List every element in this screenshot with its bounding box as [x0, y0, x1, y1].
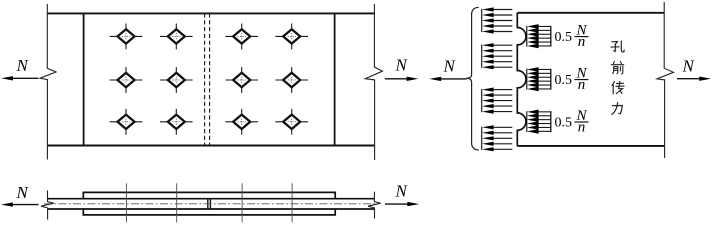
bolt B8: centerlines — [275, 67, 308, 93]
hidden butt joint dashed line 2 — [209, 13, 211, 145]
distributed load group G3: arrow 2 — [493, 94, 512, 96]
distributed load group G3: arrow 4 — [493, 105, 512, 107]
hole bearing group H3: arrow 6 — [538, 130, 551, 132]
distributed load group G1: arrow 3 — [493, 20, 512, 22]
bolt column centerline C2 — [176, 183, 178, 222]
bolt B11: centerlines — [225, 109, 258, 135]
svg-text:N: N — [16, 56, 30, 75]
distributed load group G4: arrow 2 — [493, 132, 512, 134]
detail right force arrow N — [677, 78, 702, 80]
distributed load group G4: arrow 5 — [493, 148, 512, 150]
elevation left break with zigzag — [41, 190, 54, 219]
elevation centerline (dash-dot) — [44, 203, 378, 205]
distributed load group G4: arrow 1 — [493, 126, 512, 128]
bolt B8: diamond head — [283, 73, 300, 87]
bolt B10: diamond head — [168, 115, 185, 129]
svg-text:n: n — [578, 34, 586, 50]
distributed load group G4: arrow 3 — [493, 137, 512, 139]
elevation bottom cover plate — [83, 209, 335, 215]
left break line with zigzag — [40, 4, 56, 160]
caption character LI (force) — [612, 103, 622, 115]
distributed load group G1: arrow 1 — [493, 9, 512, 11]
bolt B6: diamond head — [168, 73, 185, 87]
bolt B10: center mark — [172, 118, 180, 125]
svg-text:0.5: 0.5 — [555, 73, 573, 88]
hole bearing group H1: arrow 5 — [538, 41, 551, 43]
curly brace grouping distributed load — [466, 7, 479, 150]
bolt B8: center mark — [288, 77, 296, 84]
hole bearing group H1: arrow 1 — [538, 25, 551, 27]
distributed load group G3: arrow 3 — [493, 100, 512, 102]
bolt column centerline C1 — [125, 183, 127, 222]
svg-text:N: N — [443, 56, 457, 75]
svg-text:n: n — [578, 119, 586, 135]
bolt B1: centerlines — [110, 24, 143, 50]
bolt B12: diamond head — [283, 115, 300, 129]
svg-text:0.5: 0.5 — [555, 30, 573, 45]
elevation left force arrow N — [10, 204, 39, 206]
hole bearing group H1: arrow 4 — [538, 37, 551, 39]
butt joint gap lines — [207, 199, 209, 209]
distributed load group G1: arrow 4 — [493, 25, 512, 27]
bolt B7: diamond head — [233, 73, 250, 87]
elevation main plate top edge — [48, 198, 374, 200]
distributed load group G3: arrow 1 — [493, 89, 512, 91]
detail plate left edge with bolt hole semicircles — [517, 13, 526, 146]
bolt column centerline C3 — [241, 183, 243, 222]
hole bearing group H3: arrow 3 — [538, 119, 551, 121]
hole bearing group H2: arrow 6 — [538, 88, 551, 90]
splice cover plate right edge — [334, 13, 336, 145]
detail right break line with zigzag — [657, 2, 674, 158]
splice cover plate left edge — [83, 13, 85, 145]
bolt B2: center mark — [172, 33, 180, 40]
hole bearing group H1: back bar — [550, 26, 552, 47]
detail plate top edge — [517, 12, 664, 14]
bolt B10: centerlines — [160, 109, 193, 135]
bolt B7: centerlines — [225, 67, 258, 93]
hole bearing group H1: arrow 2 — [538, 29, 551, 31]
bolt B1: center mark — [122, 33, 130, 40]
bolt B4: centerlines — [275, 24, 308, 50]
hole bearing group H1: tip line — [526, 26, 528, 47]
bolt column centerline C4 — [291, 183, 293, 222]
right break line with zigzag — [365, 4, 382, 160]
elevation right break with zigzag — [368, 192, 381, 219]
detail plate bottom edge — [517, 145, 664, 147]
bolt B9: diamond head — [118, 115, 135, 129]
left force arrow N (plan view) — [10, 77, 38, 79]
bolt B3: centerlines — [225, 24, 258, 50]
svg-text:0.5: 0.5 — [555, 116, 573, 131]
distributed load group G4: tip line — [481, 127, 483, 150]
hole bearing group H3: arrow 4 — [538, 123, 551, 125]
bolt B9: centerlines — [110, 109, 143, 135]
bolt B4: center mark — [288, 33, 296, 40]
svg-text:N: N — [682, 57, 696, 76]
hole bearing group H2: arrow 4 — [538, 80, 551, 82]
bolt B6: center mark — [172, 77, 180, 84]
svg-text:N: N — [395, 56, 409, 75]
hole bearing group H2: arrow 5 — [538, 84, 551, 86]
svg-text:N: N — [16, 183, 30, 202]
main plate top edge (plan view) — [47, 12, 374, 14]
distributed load group G4: arrow 4 — [493, 143, 512, 145]
svg-text:n: n — [578, 77, 586, 93]
right force arrow N (plan view) — [385, 78, 409, 80]
hole bearing group H2: back bar — [550, 69, 552, 90]
distributed load group G2: arrow 2 — [493, 50, 512, 52]
bolt B4: diamond head — [283, 29, 300, 43]
svg-text:N: N — [395, 182, 409, 201]
elevation right force arrow N — [385, 203, 410, 205]
elevation top cover plate — [83, 192, 335, 198]
distributed load group G2: arrow 3 — [493, 55, 512, 57]
hole bearing group H2: arrow 2 — [538, 72, 551, 74]
bolt B2: centerlines — [160, 24, 193, 50]
distributed load group G1: arrow 2 — [493, 14, 512, 16]
bolt B12: center mark — [288, 118, 296, 125]
distributed load group G1: tip line — [481, 9, 483, 32]
bolt B11: diamond head — [233, 115, 250, 129]
caption character KONG (hole) — [611, 41, 624, 52]
distributed load group G2: arrow 5 — [493, 66, 512, 68]
elevation main plate bottom edge — [48, 208, 374, 210]
distributed load group G3: tip line — [481, 89, 483, 112]
bolt B5: diamond head — [118, 73, 135, 87]
hole bearing group H3: arrow 1 — [538, 111, 551, 113]
bolt B2: diamond head — [168, 29, 185, 43]
main plate bottom edge (plan view) — [47, 145, 374, 147]
hole bearing group H3: back bar — [550, 111, 552, 132]
hole bearing group H2: arrow 3 — [538, 76, 551, 78]
distributed load group G1: arrow 5 — [493, 31, 512, 33]
hidden butt joint dashed line 1 — [204, 13, 206, 145]
bolt B5: center mark — [122, 77, 130, 84]
detail left force arrow N — [440, 78, 467, 80]
bolt B11: center mark — [238, 118, 246, 125]
hole bearing group H2: arrow 1 — [538, 68, 551, 70]
hole bearing group H2: tip line — [526, 69, 528, 90]
hole bearing group H3: arrow 2 — [538, 115, 551, 117]
hole bearing group H1: arrow 3 — [538, 33, 551, 35]
hole bearing group H3: tip line — [526, 111, 528, 132]
bolt B1: diamond head — [118, 29, 135, 43]
bolt B7: center mark — [238, 77, 246, 84]
distributed load group G2: tip line — [481, 45, 483, 68]
hole bearing group H1: arrow 6 — [538, 45, 551, 47]
bolt B5: centerlines — [110, 67, 143, 93]
bolt B6: centerlines — [160, 67, 193, 93]
distributed load group G2: arrow 4 — [493, 61, 512, 63]
distributed load group G2: arrow 1 — [493, 44, 512, 46]
hole bearing group H3: arrow 5 — [538, 126, 551, 128]
caption character QIAN (front) — [611, 61, 623, 74]
caption character CHUAN (transfer) — [612, 82, 624, 94]
bolt B3: center mark — [238, 33, 246, 40]
distributed load group G3: arrow 5 — [493, 111, 512, 113]
bolt B9: center mark — [122, 118, 130, 125]
bolt B12: centerlines — [275, 109, 308, 135]
bolt B3: diamond head — [233, 29, 250, 43]
